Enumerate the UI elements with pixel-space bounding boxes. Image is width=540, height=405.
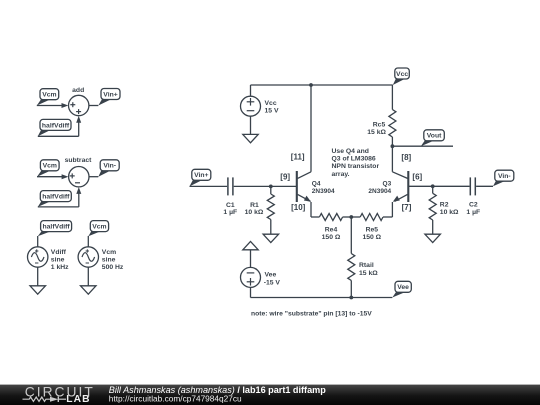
svg-text:Rc5: Rc5 bbox=[373, 121, 386, 128]
svg-text:Vcm: Vcm bbox=[92, 224, 106, 231]
svg-text:150 Ω: 150 Ω bbox=[322, 234, 341, 241]
svg-text:halfVdiff: halfVdiff bbox=[42, 122, 70, 129]
svg-text:Re4: Re4 bbox=[325, 227, 338, 234]
svg-text:Vcc: Vcc bbox=[396, 71, 408, 78]
svg-text:[11]: [11] bbox=[291, 152, 305, 161]
svg-text:-15 V: -15 V bbox=[264, 279, 281, 286]
svg-text:halfVdiff: halfVdiff bbox=[42, 194, 70, 201]
svg-text:R1: R1 bbox=[250, 202, 259, 209]
svg-text:Q3: Q3 bbox=[383, 181, 392, 188]
svg-text:Re5: Re5 bbox=[366, 227, 379, 234]
svg-text:Use Q4 and: Use Q4 and bbox=[332, 148, 369, 155]
svg-text:R2: R2 bbox=[440, 202, 449, 209]
svg-text:2N3904: 2N3904 bbox=[368, 188, 391, 195]
svg-text:Vdiff: Vdiff bbox=[51, 249, 67, 256]
svg-text:1 kHz: 1 kHz bbox=[51, 264, 69, 271]
svg-text:Vin-: Vin- bbox=[103, 163, 116, 170]
svg-text:500 Hz: 500 Hz bbox=[102, 264, 124, 271]
svg-text:2N3904: 2N3904 bbox=[312, 188, 335, 195]
svg-text:1 µF: 1 µF bbox=[223, 209, 237, 216]
svg-text:C2: C2 bbox=[469, 202, 478, 209]
svg-text:150 Ω: 150 Ω bbox=[362, 234, 381, 241]
svg-text:Vcm: Vcm bbox=[43, 163, 57, 170]
svg-text:[9]: [9] bbox=[280, 173, 290, 182]
svg-text:[8]: [8] bbox=[401, 153, 411, 162]
svg-text:add: add bbox=[72, 87, 84, 94]
svg-text:LAB: LAB bbox=[66, 394, 90, 405]
svg-text:15 V: 15 V bbox=[265, 108, 279, 115]
svg-text:[10]: [10] bbox=[291, 203, 306, 212]
svg-text:Vin-: Vin- bbox=[498, 173, 511, 180]
svg-text:Vcm: Vcm bbox=[102, 249, 116, 256]
svg-text:NPN transistor: NPN transistor bbox=[332, 163, 380, 170]
svg-text:1 µF: 1 µF bbox=[466, 209, 480, 216]
svg-text:[6]: [6] bbox=[412, 173, 422, 182]
svg-text:sine: sine bbox=[51, 256, 65, 263]
svg-text:10 kΩ: 10 kΩ bbox=[440, 209, 459, 216]
svg-text:15 kΩ: 15 kΩ bbox=[359, 270, 378, 277]
svg-text:http://circuitlab.com/cp747984: http://circuitlab.com/cp747984q27cu bbox=[109, 394, 242, 404]
svg-text:Vee: Vee bbox=[397, 284, 409, 291]
svg-text:Vcc: Vcc bbox=[265, 100, 277, 107]
svg-text:10 kΩ: 10 kΩ bbox=[245, 209, 264, 216]
svg-text:note: wire "substrate" pin [13: note: wire "substrate" pin [13] to -15V bbox=[251, 310, 372, 317]
svg-text:Rtail: Rtail bbox=[359, 262, 374, 269]
svg-text:Vout: Vout bbox=[427, 133, 442, 140]
svg-text:Q3 of LM3086: Q3 of LM3086 bbox=[332, 156, 376, 163]
svg-text:subtract: subtract bbox=[65, 157, 93, 164]
svg-text:Vin+: Vin+ bbox=[194, 172, 208, 179]
svg-text:Q4: Q4 bbox=[312, 181, 321, 188]
svg-text:Vcm: Vcm bbox=[42, 92, 56, 99]
svg-text:sine: sine bbox=[102, 256, 116, 263]
svg-text:C1: C1 bbox=[226, 202, 235, 209]
svg-text:Vin+: Vin+ bbox=[103, 91, 117, 98]
svg-text:halfVdiff: halfVdiff bbox=[43, 224, 71, 231]
svg-text:15 kΩ: 15 kΩ bbox=[367, 129, 386, 136]
svg-text:Vee: Vee bbox=[265, 271, 277, 278]
svg-text:array.: array. bbox=[332, 171, 350, 178]
svg-text:[7]: [7] bbox=[402, 203, 412, 212]
